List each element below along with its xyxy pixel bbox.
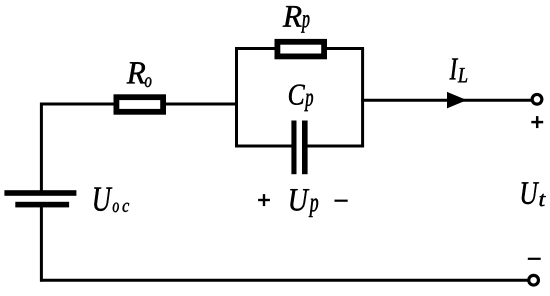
label Cp xyxy=(289,85,313,112)
terminal: negative output circle xyxy=(529,275,539,285)
arrowhead for load current IL xyxy=(447,92,467,109)
plus sign of Up polarity xyxy=(258,194,270,206)
resistor Ro xyxy=(114,94,167,114)
wire: RC loop top horizontal xyxy=(235,47,364,50)
wire: RC loop bottom horizontal right of capacitor xyxy=(306,145,364,148)
label IL xyxy=(450,59,468,83)
wire: RC loop bottom horizontal left of capacitor xyxy=(235,145,292,148)
capacitor Cp right plate xyxy=(302,121,308,175)
label Rp xyxy=(283,6,310,32)
wire: left vertical from top wire to battery top plate xyxy=(40,103,43,192)
battery Uoc long plate xyxy=(4,190,76,196)
plus sign at positive terminal xyxy=(531,116,543,128)
wire: output wire to positive terminal xyxy=(361,99,531,102)
minus sign of Up polarity xyxy=(335,200,348,202)
wire: RC loop right vertical xyxy=(361,47,364,147)
label Ut xyxy=(522,182,546,206)
label Up xyxy=(290,189,318,217)
wire: bottom horizontal to negative terminal xyxy=(40,279,528,282)
wire: top horizontal, battery corner to resistor Ro xyxy=(40,103,115,106)
label Ro xyxy=(127,62,152,87)
battery Uoc short plate xyxy=(15,202,69,208)
capacitor Cp left plate xyxy=(291,121,296,175)
resistor Rp xyxy=(275,39,328,59)
terminal: positive output circle xyxy=(532,94,542,104)
wire: left vertical from battery bottom plate to bottom wire xyxy=(40,206,43,282)
label Uoc xyxy=(94,188,129,213)
wire: RC loop left vertical xyxy=(235,47,238,147)
wire: top horizontal, resistor Ro to RC loop left xyxy=(165,103,239,106)
minus sign at negative terminal xyxy=(528,258,541,260)
